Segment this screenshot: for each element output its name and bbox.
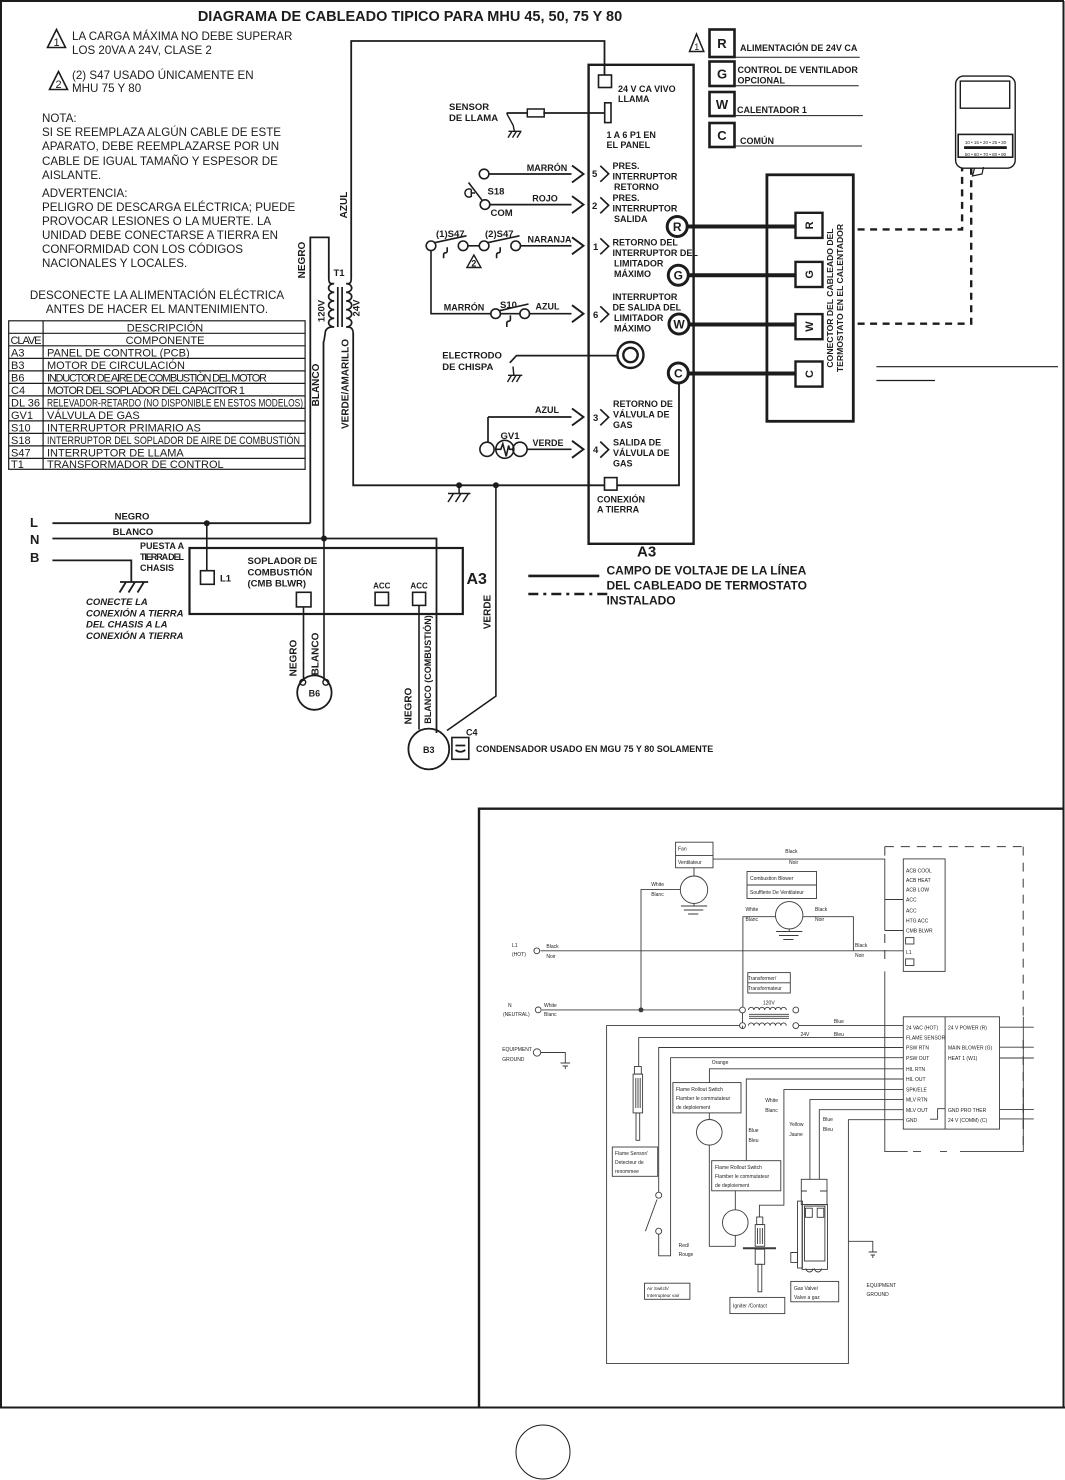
svg-text:R: R (717, 36, 727, 51)
svg-text:LA CARGA MÁXIMA NO DEBE SUPERA: LA CARGA MÁXIMA NO DEBE SUPERAR (72, 30, 292, 43)
svg-text:GND: GND (906, 1118, 918, 1124)
svg-text:DE CHISPA: DE CHISPA (442, 362, 493, 373)
svg-text:HTG ACC: HTG ACC (906, 918, 929, 924)
svg-text:BLANCO: BLANCO (311, 363, 322, 406)
svg-text:Jaune: Jaune (789, 1132, 803, 1138)
svg-text:CONTROL DE VENTILADOR: CONTROL DE VENTILADOR (738, 65, 859, 75)
svg-text:CONECTOR DEL CABLEADO DEL: CONECTOR DEL CABLEADO DEL (825, 228, 835, 367)
svg-text:Detecteur de: Detecteur de (615, 1160, 644, 1166)
svg-text:LIMITADOR: LIMITADOR (614, 313, 664, 323)
svg-text:Flame Sensor/: Flame Sensor/ (615, 1151, 648, 1157)
svg-text:W: W (716, 97, 729, 112)
svg-text:NEGRO: NEGRO (297, 241, 308, 278)
svg-text:MOTOR DE CIRCULACIÓN: MOTOR DE CIRCULACIÓN (47, 359, 185, 372)
svg-text:DE LLAMA: DE LLAMA (449, 113, 498, 124)
svg-text:CHASIS: CHASIS (140, 563, 174, 573)
svg-text:COMPONENTE: COMPONENTE (126, 335, 205, 347)
svg-text:RELEVADOR-RETARDO (NO DISPONIB: RELEVADOR-RETARDO (NO DISPONIBLE EN ESTO… (47, 397, 303, 409)
svg-text:INTERRUPTOR DEL: INTERRUPTOR DEL (613, 248, 699, 258)
svg-text:GAS: GAS (613, 459, 633, 469)
svg-text:de deploiement: de deploiement (676, 1105, 711, 1111)
svg-text:L: L (30, 515, 38, 530)
svg-text:SOPLADOR DE: SOPLADOR DE (248, 556, 318, 567)
svg-text:(1)S47: (1)S47 (436, 229, 465, 240)
svg-text:Blue: Blue (823, 1117, 833, 1123)
svg-text:DEL CHASIS A LA: DEL CHASIS A LA (86, 620, 168, 631)
svg-text:N: N (30, 532, 39, 547)
svg-text:DEL CABLEADO DE TERMOSTATO: DEL CABLEADO DE TERMOSTATO (607, 579, 807, 593)
svg-text:VERDE: VERDE (483, 594, 494, 629)
svg-text:AZUL: AZUL (339, 192, 350, 219)
svg-text:GROUND: GROUND (502, 1057, 525, 1063)
svg-text:LIMITADOR: LIMITADOR (614, 259, 664, 269)
svg-text:B6: B6 (11, 372, 24, 384)
svg-text:SPK/ELE: SPK/ELE (906, 1088, 928, 1094)
svg-text:ACC: ACC (410, 582, 428, 591)
svg-text:NEGRO: NEGRO (404, 687, 415, 724)
svg-text:EL PANEL: EL PANEL (607, 140, 651, 150)
svg-text:24 V CA VIVO: 24 V CA VIVO (618, 84, 676, 94)
svg-text:SALIDA: SALIDA (614, 214, 648, 224)
svg-text:A3: A3 (11, 347, 24, 359)
svg-text:CONECTE LA: CONECTE LA (86, 597, 148, 608)
svg-text:A TIERRA: A TIERRA (597, 505, 640, 515)
svg-text:(CMB BLWR): (CMB BLWR) (248, 579, 307, 590)
svg-text:24 V (COMM) (C): 24 V (COMM) (C) (948, 1118, 988, 1124)
svg-text:HEAT 1 (W1): HEAT 1 (W1) (948, 1056, 978, 1062)
svg-text:INTERRUPTOR DE LLAMA: INTERRUPTOR DE LLAMA (47, 447, 184, 459)
svg-text:CLAVE: CLAVE (11, 335, 42, 347)
svg-text:White: White (765, 1098, 778, 1104)
svg-text:NARANJA: NARANJA (527, 235, 572, 245)
svg-text:TIERRA DEL: TIERRA DEL (140, 552, 185, 562)
svg-text:B6: B6 (309, 689, 321, 699)
svg-text:120V: 120V (763, 1001, 775, 1007)
svg-text:Combustion Blower: Combustion Blower (750, 876, 794, 882)
svg-text:C4: C4 (466, 728, 478, 738)
svg-text:5: 5 (592, 169, 598, 180)
svg-text:3: 3 (593, 413, 598, 424)
svg-text:Rouge: Rouge (679, 1252, 694, 1258)
svg-text:MLV RTN: MLV RTN (906, 1098, 928, 1104)
svg-text:Interrupteur vair: Interrupteur vair (647, 1293, 680, 1298)
svg-text:NOTA:: NOTA: (42, 112, 77, 125)
svg-text:Bleu: Bleu (823, 1127, 833, 1133)
svg-text:Transformateur: Transformateur (748, 986, 782, 992)
svg-text:AZUL: AZUL (536, 302, 560, 312)
svg-text:LLAMA: LLAMA (618, 94, 650, 104)
svg-text:DESCRIPCIÓN: DESCRIPCIÓN (127, 321, 203, 334)
svg-text:B: B (30, 550, 39, 565)
svg-text:Black: Black (785, 849, 798, 855)
svg-text:ACB HEAT: ACB HEAT (906, 878, 931, 884)
svg-text:PANEL DE CONTROL (PCB): PANEL DE CONTROL (PCB) (47, 347, 190, 359)
svg-text:Blanc: Blanc (765, 1108, 778, 1114)
svg-text:MLV OUT: MLV OUT (906, 1108, 928, 1114)
svg-text:G: G (804, 270, 816, 279)
svg-text:GND PRO THER: GND PRO THER (948, 1108, 987, 1114)
svg-text:RETORNO DE: RETORNO DE (613, 399, 673, 409)
svg-text:TRANSFORMADOR DE CONTROL: TRANSFORMADOR DE CONTROL (47, 459, 224, 471)
svg-text:Igniter /Contact: Igniter /Contact (733, 1304, 768, 1310)
svg-text:Gas Valve/: Gas Valve/ (794, 1286, 819, 1292)
svg-text:(2)S47: (2)S47 (485, 229, 514, 240)
svg-text:GV1: GV1 (500, 431, 520, 442)
svg-text:SI SE REEMPLAZA ALGÚN CABLE DE: SI SE REEMPLAZA ALGÚN CABLE DE ESTE (42, 126, 281, 139)
svg-text:Noir: Noir (789, 860, 799, 866)
svg-text:Blanc: Blanc (746, 917, 759, 923)
svg-text:A3: A3 (637, 544, 656, 561)
svg-text:INSTALADO: INSTALADO (607, 594, 676, 608)
svg-text:COM: COM (491, 208, 513, 219)
svg-text:Noir: Noir (815, 917, 825, 923)
svg-text:CONEXIÓN A TIERRA: CONEXIÓN A TIERRA (86, 630, 184, 642)
svg-text:C4: C4 (11, 385, 25, 397)
svg-text:VÁLVULA DE: VÁLVULA DE (613, 410, 670, 420)
svg-text:S18: S18 (11, 435, 31, 447)
svg-text:ROJO: ROJO (532, 194, 558, 204)
svg-text:GROUND: GROUND (867, 1292, 890, 1298)
svg-text:CAMPO DE VOLTAJE DE LA LÍNEA: CAMPO DE VOLTAJE DE LA LÍNEA (607, 563, 807, 578)
svg-text:ACB LOW: ACB LOW (906, 888, 929, 894)
svg-text:C: C (804, 370, 816, 378)
svg-text:PELIGRO DE DESCARGA ELÉCTRICA;: PELIGRO DE DESCARGA ELÉCTRICA; PUEDE (42, 201, 295, 214)
svg-text:S10: S10 (500, 300, 517, 311)
svg-text:N: N (508, 1003, 512, 1009)
svg-text:SALIDA DE: SALIDA DE (613, 438, 661, 448)
svg-text:BLANCO: BLANCO (113, 527, 154, 538)
svg-text:Red/: Red/ (679, 1243, 690, 1249)
svg-text:120V: 120V (317, 299, 328, 322)
svg-text:White: White (544, 1003, 557, 1009)
svg-text:HIL RTN: HIL RTN (906, 1067, 926, 1073)
svg-text:2: 2 (55, 79, 61, 91)
svg-text:NACIONALES Y LOCALES.: NACIONALES Y LOCALES. (42, 257, 187, 270)
svg-text:24V: 24V (352, 299, 363, 317)
svg-text:Noir: Noir (855, 953, 865, 959)
svg-text:INDUCTOR DE AIRE DE COMBUSTIÒN: INDUCTOR DE AIRE DE COMBUSTIÒN DEL MOTOR (47, 371, 267, 384)
svg-text:W: W (673, 317, 685, 331)
svg-text:Black: Black (546, 944, 559, 950)
svg-text:R: R (804, 221, 816, 229)
svg-text:OPCIONAL: OPCIONAL (738, 76, 786, 86)
svg-text:White: White (746, 907, 759, 913)
svg-text:Black: Black (815, 907, 828, 913)
svg-text:CMB BLWR: CMB BLWR (906, 929, 933, 935)
svg-text:24V: 24V (801, 1032, 811, 1038)
svg-text:ELECTRODO: ELECTRODO (442, 350, 502, 361)
svg-text:INTERRUPTOR PRIMARIO AS: INTERRUPTOR PRIMARIO AS (47, 422, 201, 434)
svg-text:ANTES DE HACER EL MANTENIMIENT: ANTES DE HACER EL MANTENIMIENTO. (46, 303, 268, 316)
svg-text:MARRÓN: MARRÓN (527, 162, 568, 173)
svg-text:White: White (651, 882, 664, 888)
svg-text:Fan: Fan (678, 847, 687, 853)
svg-text:SENSOR: SENSOR (449, 102, 489, 113)
svg-text:EQUIPMENT: EQUIPMENT (502, 1047, 532, 1053)
svg-text:INTERRUPTOR: INTERRUPTOR (613, 292, 678, 302)
svg-text:S10: S10 (11, 422, 31, 434)
svg-text:ACC: ACC (906, 909, 917, 915)
svg-text:C: C (717, 128, 727, 143)
svg-text:Flame Rollout Switch: Flame Rollout Switch (715, 1165, 762, 1171)
svg-text:AISLANTE.: AISLANTE. (42, 169, 101, 182)
svg-text:Air Switch/: Air Switch/ (647, 1286, 669, 1291)
svg-text:PRES.: PRES. (613, 193, 640, 203)
svg-text:6: 6 (593, 310, 598, 321)
svg-text:Bleu: Bleu (749, 1138, 759, 1144)
svg-text:DL 36: DL 36 (11, 397, 40, 409)
svg-text:PROVOCAR LESIONES O LA MUERTE.: PROVOCAR LESIONES O LA MUERTE. LA (42, 215, 271, 228)
svg-text:MÁXIMO: MÁXIMO (614, 269, 651, 279)
svg-text:FLAME SENSOR: FLAME SENSOR (906, 1036, 946, 1042)
svg-text:DIAGRAMA DE CABLEADO TIPICO PA: DIAGRAMA DE CABLEADO TIPICO PARA MHU 45,… (198, 9, 622, 25)
svg-text:Blanc: Blanc (544, 1012, 557, 1018)
svg-text:CONEXIÓN: CONEXIÓN (597, 494, 645, 505)
svg-text:Ventilateur: Ventilateur (678, 860, 702, 866)
svg-text:PSW OUT: PSW OUT (906, 1056, 929, 1062)
svg-text:S18: S18 (488, 187, 505, 198)
svg-text:CABLE DE IGUAL TAMAÑO Y ESPESO: CABLE DE IGUAL TAMAÑO Y ESPESOR DE (42, 155, 278, 168)
svg-text:W: W (804, 321, 816, 332)
svg-text:Flamber le commutateur: Flamber le commutateur (676, 1096, 731, 1102)
svg-text:PRES.: PRES. (613, 161, 640, 171)
svg-text:2: 2 (592, 201, 597, 212)
svg-text:renommee: renommee (615, 1169, 639, 1175)
svg-text:INTERRUPTOR: INTERRUPTOR (613, 204, 678, 214)
svg-text:GV1: GV1 (11, 410, 33, 422)
svg-text:LOS 20VA A 24V, CLASE 2: LOS 20VA A 24V, CLASE 2 (72, 44, 212, 57)
svg-text:MARRÓN: MARRÓN (444, 302, 485, 313)
svg-text:24 VAC (HOT): 24 VAC (HOT) (906, 1026, 938, 1032)
svg-text:L1: L1 (906, 950, 912, 956)
svg-text:B3: B3 (423, 745, 435, 755)
svg-text:DESCONECTE LA ALIMENTACIÓN ELÉ: DESCONECTE LA ALIMENTACIÓN ELÉCTRICA (30, 289, 285, 302)
svg-text:ACC: ACC (373, 582, 391, 591)
svg-text:CONEXIÓN A TIERRA: CONEXIÓN A TIERRA (86, 607, 184, 619)
svg-text:Orange: Orange (712, 1060, 729, 1066)
svg-text:Black: Black (855, 943, 868, 949)
svg-text:DE SALIDA DEL: DE SALIDA DEL (613, 303, 682, 313)
svg-text:UNIDAD DEBE CONECTARSE A TIERR: UNIDAD DEBE CONECTARSE A TIERRA EN (42, 229, 278, 242)
svg-text:1: 1 (694, 42, 699, 52)
svg-text:COMBUSTIÓN: COMBUSTIÓN (248, 566, 313, 578)
svg-text:(HOT): (HOT) (512, 952, 526, 958)
svg-text:Yellow: Yellow (789, 1122, 804, 1128)
svg-text:L1: L1 (512, 943, 518, 949)
svg-text:S47: S47 (11, 447, 31, 459)
svg-text:VÁLVULA DE: VÁLVULA DE (613, 448, 670, 458)
svg-text:RETORNO: RETORNO (614, 182, 659, 192)
svg-text:NEGRO: NEGRO (289, 639, 300, 676)
svg-text:4: 4 (593, 445, 599, 456)
svg-text:50 • 60 • 70 • 80 • 90: 50 • 60 • 70 • 80 • 90 (965, 152, 1007, 157)
svg-text:24 V POWER (R): 24 V POWER (R) (948, 1026, 987, 1032)
svg-text:Transformer/: Transformer/ (748, 976, 777, 982)
svg-text:1: 1 (53, 37, 59, 49)
svg-text:Valve a gaz: Valve a gaz (794, 1295, 820, 1301)
svg-text:Blue: Blue (834, 1019, 844, 1025)
svg-text:EQUIPMENT: EQUIPMENT (867, 1283, 897, 1289)
svg-text:HIL OUT: HIL OUT (906, 1077, 926, 1083)
svg-text:B3: B3 (11, 360, 24, 372)
svg-text:INTERRUPTOR: INTERRUPTOR (613, 172, 678, 182)
svg-text:APARATO, DEBE REEMPLAZARSE POR: APARATO, DEBE REEMPLAZARSE POR UN (42, 140, 279, 153)
svg-text:R: R (673, 220, 682, 234)
svg-text:PUESTA A: PUESTA A (140, 541, 185, 551)
svg-text:RETORNO DEL: RETORNO DEL (613, 238, 679, 248)
svg-text:MAIN BLOWER (G): MAIN BLOWER (G) (948, 1046, 993, 1052)
svg-text:ADVERTENCIA:: ADVERTENCIA: (42, 187, 127, 200)
svg-text:1 A 6 P1 EN: 1 A 6 P1 EN (607, 130, 656, 140)
svg-text:de deploiement: de deploiement (715, 1183, 750, 1189)
svg-text:(NEUTRAL): (NEUTRAL) (503, 1012, 530, 1018)
svg-text:L1: L1 (220, 574, 232, 585)
svg-text:(2) S47 USADO ÚNICAMENTE EN: (2) S47 USADO ÚNICAMENTE EN (72, 69, 254, 82)
svg-text:VERDE/AMARILLO: VERDE/AMARILLO (341, 339, 352, 429)
svg-text:BLANCO: BLANCO (311, 632, 322, 675)
svg-text:G: G (674, 269, 683, 283)
svg-text:2: 2 (471, 258, 476, 268)
svg-text:Soufflerie De Ventilateur: Soufflerie De Ventilateur (750, 890, 804, 896)
svg-text:PSW RTN: PSW RTN (906, 1046, 929, 1052)
svg-text:ALIMENTACIÓN DE 24V CA: ALIMENTACIÓN DE 24V CA (740, 42, 858, 53)
svg-text:1: 1 (593, 242, 599, 253)
svg-text:Flame Rollout Switch: Flame Rollout Switch (676, 1087, 723, 1093)
svg-text:T1: T1 (11, 459, 24, 471)
svg-text:Noir: Noir (546, 954, 556, 960)
svg-text:ACB COOL: ACB COOL (906, 869, 932, 875)
svg-text:C: C (674, 366, 683, 380)
svg-text:ACC: ACC (906, 898, 917, 904)
svg-text:Blanc: Blanc (651, 892, 664, 898)
svg-text:MHU 75 Y 80: MHU 75 Y 80 (72, 82, 141, 95)
svg-text:Flamber le commutateur: Flamber le commutateur (715, 1174, 770, 1180)
svg-text:CONDENSADOR USADO EN MGU 75 Y: CONDENSADOR USADO EN MGU 75 Y 80 SOLAMEN… (476, 744, 713, 754)
svg-text:A3: A3 (467, 571, 488, 588)
svg-text:GAS: GAS (613, 420, 633, 430)
svg-text:Blue: Blue (749, 1128, 759, 1134)
svg-text:VERDE: VERDE (532, 438, 563, 448)
svg-text:INTERRUPTOR DEL SOPLADOR DE AI: INTERRUPTOR DEL SOPLADOR DE AIRE DE COMB… (47, 434, 300, 447)
svg-text:10 • 15 • 20 • 25 • 30: 10 • 15 • 20 • 25 • 30 (965, 140, 1007, 145)
svg-text:TERMOSTATO EN EL CALENTADOR: TERMOSTATO EN EL CALENTADOR (835, 223, 845, 372)
svg-text:Bleu: Bleu (834, 1032, 844, 1038)
svg-text:AZUL: AZUL (535, 405, 559, 415)
svg-text:MÁXIMO: MÁXIMO (614, 324, 651, 334)
svg-text:CALENTADOR 1: CALENTADOR 1 (737, 105, 807, 115)
svg-text:CONFORMIDAD CON LOS CÓDIGOS: CONFORMIDAD CON LOS CÓDIGOS (42, 243, 243, 256)
svg-text:T1: T1 (333, 268, 345, 279)
svg-text:MOTOR DEL SOPLADOR DEL CAPACIT: MOTOR DEL SOPLADOR DEL CAPACITOR 1 (47, 385, 245, 397)
svg-text:COMÚN: COMÚN (740, 135, 774, 146)
svg-text:BLANCO (COMBUSTIÓN): BLANCO (COMBUSTIÓN) (422, 615, 433, 724)
svg-text:G: G (717, 67, 727, 82)
svg-text:NEGRO: NEGRO (115, 512, 150, 523)
svg-text:VÁLVULA DE GAS: VÁLVULA DE GAS (47, 409, 140, 422)
